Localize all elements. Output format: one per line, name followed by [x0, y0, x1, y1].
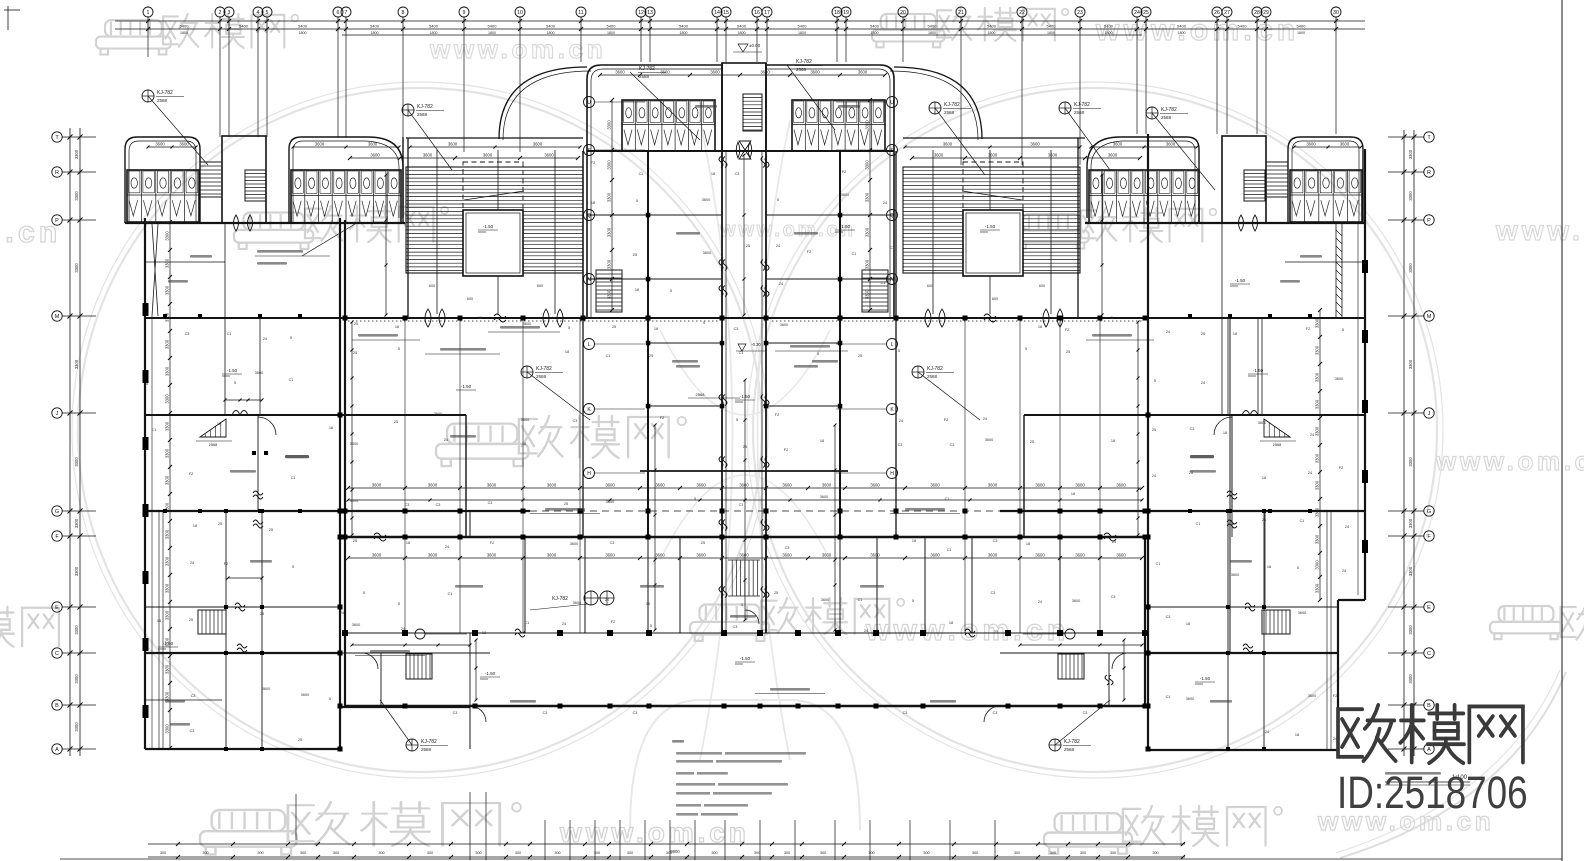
svg-text:3600: 3600	[428, 553, 438, 558]
svg-text:N: N	[890, 277, 894, 283]
svg-text:18: 18	[1233, 332, 1237, 336]
svg-text:-1.50: -1.50	[227, 368, 238, 373]
svg-text:5400: 5400	[1104, 24, 1114, 29]
svg-text:300: 300	[923, 851, 929, 855]
svg-text:18: 18	[635, 288, 639, 292]
svg-text:F2: F2	[807, 250, 811, 254]
svg-text:25: 25	[218, 522, 222, 526]
svg-text:25: 25	[298, 738, 302, 742]
svg-text:3600: 3600	[1072, 599, 1080, 603]
svg-text:3300: 3300	[1408, 674, 1413, 684]
svg-text:C1: C1	[606, 354, 611, 358]
svg-text:5: 5	[817, 352, 819, 356]
svg-text:C1: C1	[1300, 519, 1305, 523]
svg-text:3600: 3600	[782, 483, 792, 488]
svg-text:3600: 3600	[523, 322, 531, 326]
svg-text:C3: C3	[190, 729, 195, 733]
svg-text:C3: C3	[488, 501, 493, 505]
svg-text:300: 300	[868, 851, 874, 855]
svg-text:5400: 5400	[1047, 24, 1057, 29]
svg-text:300: 300	[475, 851, 481, 855]
svg-text:25: 25	[633, 253, 637, 257]
svg-text:5: 5	[568, 326, 570, 330]
svg-text:C: C	[1427, 651, 1431, 657]
svg-text:24: 24	[445, 545, 449, 549]
svg-text:3600: 3600	[301, 693, 309, 697]
svg-text:300: 300	[1152, 851, 1158, 855]
svg-text:3600: 3600	[702, 198, 710, 202]
svg-text:3300: 3300	[1315, 507, 1320, 517]
svg-text:U: U	[587, 100, 591, 106]
svg-text:5: 5	[398, 347, 400, 351]
svg-text:18: 18	[820, 439, 824, 443]
svg-text:C3: C3	[633, 711, 638, 715]
svg-text:25: 25	[354, 322, 358, 326]
svg-text:3300: 3300	[1408, 518, 1413, 528]
svg-text:3300: 3300	[165, 231, 170, 241]
svg-text:5: 5	[703, 321, 705, 325]
svg-text:18: 18	[482, 631, 486, 635]
svg-text:3300: 3300	[1315, 583, 1320, 593]
svg-text:2568: 2568	[1161, 115, 1172, 120]
svg-text:KJ-782: KJ-782	[796, 59, 812, 65]
svg-text:F2: F2	[1065, 328, 1069, 332]
svg-text:600: 600	[537, 284, 543, 288]
svg-text:2568: 2568	[796, 67, 807, 72]
svg-text:C1: C1	[947, 548, 952, 552]
svg-text:3600: 3600	[1306, 142, 1316, 147]
svg-text:3600: 3600	[615, 70, 625, 75]
svg-text:5400: 5400	[180, 24, 190, 29]
svg-text:3300: 3300	[607, 160, 612, 170]
svg-text:C3: C3	[734, 327, 739, 331]
svg-text:25: 25	[994, 630, 998, 634]
svg-text:18: 18	[157, 619, 161, 623]
svg-text:3300: 3300	[1408, 149, 1413, 159]
svg-text:3300: 3300	[1408, 625, 1413, 635]
svg-text:F2: F2	[490, 541, 494, 545]
svg-text:24: 24	[1262, 518, 1266, 522]
svg-text:5: 5	[741, 603, 743, 607]
svg-text:300: 300	[333, 851, 339, 855]
svg-text:C1: C1	[639, 172, 644, 176]
svg-text:3600: 3600	[1116, 553, 1126, 558]
svg-text:C3: C3	[1111, 595, 1116, 599]
svg-text:3600: 3600	[841, 193, 849, 197]
svg-text:300: 300	[1080, 851, 1086, 855]
svg-text:600: 600	[927, 284, 933, 288]
svg-text:3300: 3300	[865, 192, 870, 202]
svg-text:1800: 1800	[547, 31, 555, 35]
svg-text:3300: 3300	[74, 263, 79, 273]
svg-text:C3: C3	[1230, 522, 1235, 526]
svg-text:3300: 3300	[865, 120, 870, 130]
svg-text:18: 18	[1295, 733, 1299, 737]
svg-text:3600: 3600	[696, 483, 706, 488]
svg-text:28: 28	[1254, 10, 1260, 16]
svg-text:18: 18	[217, 422, 221, 426]
svg-text:300: 300	[1110, 851, 1116, 855]
svg-text:3600: 3600	[858, 70, 868, 75]
svg-text:9: 9	[463, 10, 466, 16]
svg-text:5400: 5400	[1238, 24, 1248, 29]
svg-text:3600: 3600	[760, 70, 770, 75]
svg-text:C3: C3	[191, 694, 196, 698]
svg-text:3600: 3600	[1308, 694, 1316, 698]
svg-text:3300: 3300	[1315, 318, 1320, 328]
svg-text:5400: 5400	[679, 24, 689, 29]
svg-text:3600: 3600	[1231, 573, 1239, 577]
svg-text:2568: 2568	[417, 112, 428, 117]
svg-text:18: 18	[912, 539, 916, 543]
svg-text:www.om.cn: www.om.cn	[1495, 215, 1584, 246]
svg-text:C3: C3	[890, 246, 895, 250]
svg-text:5: 5	[234, 381, 236, 385]
svg-text:5: 5	[398, 602, 400, 606]
svg-text:3600: 3600	[547, 483, 557, 488]
svg-text:25: 25	[1030, 440, 1034, 444]
svg-text:C3: C3	[993, 711, 998, 715]
svg-text:3600: 3600	[487, 553, 497, 558]
svg-text:3600: 3600	[696, 553, 706, 558]
svg-text:1800: 1800	[488, 31, 496, 35]
svg-text:5: 5	[1111, 316, 1113, 320]
svg-text:18: 18	[1038, 325, 1042, 329]
svg-text:3300: 3300	[1315, 399, 1320, 409]
svg-text:3600: 3600	[533, 142, 543, 147]
svg-text:24: 24	[605, 598, 609, 602]
svg-text:-1.50: -1.50	[1200, 676, 1211, 681]
svg-text:2: 2	[219, 10, 222, 16]
svg-text:24: 24	[1308, 471, 1312, 475]
svg-text:2568: 2568	[696, 392, 706, 397]
svg-text:3300: 3300	[74, 359, 79, 369]
svg-text:1800: 1800	[928, 31, 936, 35]
svg-text:25: 25	[564, 502, 568, 506]
svg-text:27: 27	[1224, 10, 1230, 16]
svg-text:3600: 3600	[606, 500, 614, 504]
svg-text:KJ-782: KJ-782	[536, 366, 552, 372]
svg-text:3: 3	[228, 10, 231, 16]
svg-text:E: E	[1427, 605, 1431, 611]
svg-text:18: 18	[834, 10, 840, 16]
svg-text:3300: 3300	[74, 566, 79, 576]
svg-text:3300: 3300	[165, 475, 170, 485]
svg-text:25: 25	[858, 354, 862, 358]
svg-text:5: 5	[898, 349, 900, 353]
svg-text:L: L	[588, 342, 591, 348]
svg-text:3600: 3600	[544, 153, 554, 158]
svg-text:3300: 3300	[1315, 345, 1320, 355]
svg-text:3300: 3300	[607, 192, 612, 202]
svg-text:5: 5	[146, 382, 148, 386]
svg-text:24: 24	[340, 611, 344, 615]
svg-text:C1: C1	[291, 476, 296, 480]
svg-text:3600: 3600	[988, 553, 998, 558]
svg-text:KJ-782: KJ-782	[552, 596, 568, 602]
svg-text:3300: 3300	[74, 518, 79, 528]
svg-text:3600: 3600	[1048, 153, 1058, 158]
svg-text:3300: 3300	[165, 394, 170, 404]
svg-text:C1: C1	[152, 428, 157, 432]
svg-text:3300: 3300	[74, 722, 79, 732]
svg-text:3600: 3600	[934, 153, 944, 158]
svg-text:R: R	[55, 170, 59, 176]
svg-text:www.om.cn: www.om.cn	[559, 817, 750, 848]
svg-text:5: 5	[912, 599, 914, 603]
svg-text:C3: C3	[993, 539, 998, 543]
svg-text:3600: 3600	[255, 371, 263, 375]
svg-text:E: E	[55, 605, 59, 611]
svg-text:1: 1	[147, 10, 150, 16]
svg-text:1800: 1800	[871, 31, 879, 35]
svg-text:F2: F2	[1339, 466, 1343, 470]
svg-text:C1: C1	[289, 378, 294, 382]
svg-text:3600: 3600	[660, 70, 670, 75]
svg-text:1800: 1800	[1105, 31, 1113, 35]
svg-text:C3: C3	[898, 443, 903, 447]
svg-text:1800: 1800	[371, 31, 379, 35]
svg-text:F2: F2	[189, 472, 193, 476]
svg-text:600: 600	[467, 297, 473, 301]
svg-text:3300: 3300	[74, 674, 79, 684]
svg-text:24: 24	[983, 417, 987, 421]
svg-text:3600: 3600	[428, 483, 438, 488]
svg-text:3600: 3600	[262, 687, 270, 691]
svg-text:3300: 3300	[1315, 372, 1320, 382]
svg-text:3600: 3600	[870, 553, 880, 558]
svg-text:18: 18	[395, 325, 399, 329]
svg-text:1800: 1800	[798, 31, 806, 35]
svg-text:24: 24	[883, 201, 887, 205]
svg-text:F2: F2	[660, 416, 664, 420]
svg-text:300: 300	[627, 851, 633, 855]
svg-text:3600: 3600	[487, 483, 497, 488]
svg-text:18: 18	[1267, 565, 1271, 569]
svg-text:C3: C3	[733, 625, 738, 629]
svg-text:7: 7	[345, 10, 348, 16]
svg-text:18: 18	[654, 327, 658, 331]
svg-text:C1: C1	[739, 503, 744, 507]
svg-text:3600: 3600	[943, 142, 953, 147]
svg-text:C: C	[55, 651, 59, 657]
svg-text:25: 25	[774, 591, 778, 595]
svg-text:3300: 3300	[74, 457, 79, 467]
svg-text:12: 12	[638, 10, 644, 16]
svg-text:G: G	[55, 509, 59, 515]
svg-text:www.om.cn: www.om.cn	[429, 34, 606, 64]
svg-text:5: 5	[1025, 347, 1027, 351]
svg-text:300: 300	[515, 851, 521, 855]
svg-text:25: 25	[353, 539, 357, 543]
svg-text:C1: C1	[1166, 695, 1171, 699]
svg-text:C1: C1	[739, 351, 744, 355]
svg-text:3300: 3300	[165, 366, 170, 376]
svg-text:ID:2518706: ID:2518706	[1337, 768, 1528, 818]
svg-text:M: M	[1427, 314, 1432, 320]
svg-text:C1: C1	[227, 332, 232, 336]
svg-text:C3: C3	[950, 443, 955, 447]
svg-text:5: 5	[777, 198, 779, 202]
svg-text:3600: 3600	[810, 70, 820, 75]
svg-text:3600: 3600	[1075, 553, 1085, 558]
svg-text:5: 5	[650, 624, 652, 628]
svg-text:25: 25	[1143, 10, 1149, 16]
svg-text:2568: 2568	[536, 374, 547, 379]
svg-text:3600: 3600	[988, 153, 998, 158]
svg-text:18: 18	[1111, 439, 1115, 443]
svg-text:23: 23	[1077, 10, 1083, 16]
svg-text:5400: 5400	[488, 24, 498, 29]
svg-text:300: 300	[784, 851, 790, 855]
svg-text:2568: 2568	[1064, 747, 1075, 752]
svg-text:24: 24	[1201, 381, 1205, 385]
svg-text:2568: 2568	[209, 443, 217, 447]
svg-text:F2: F2	[775, 413, 779, 417]
svg-text:C1: C1	[448, 592, 453, 596]
svg-text:3600: 3600	[1258, 421, 1266, 425]
svg-text:30: 30	[1333, 10, 1339, 16]
svg-text:3300: 3300	[865, 289, 870, 299]
svg-text:F2: F2	[611, 620, 615, 624]
svg-text:300: 300	[378, 851, 384, 855]
svg-text:5: 5	[329, 697, 331, 701]
svg-text:KJ-782: KJ-782	[421, 739, 437, 745]
svg-text:24: 24	[864, 629, 868, 633]
svg-text:F2: F2	[842, 170, 846, 174]
svg-text:1800: 1800	[1297, 31, 1305, 35]
svg-text:C1: C1	[1156, 562, 1161, 566]
svg-text:P: P	[55, 218, 59, 224]
svg-text:5400: 5400	[928, 24, 938, 29]
svg-text:8: 8	[402, 10, 405, 16]
svg-text:3600: 3600	[1108, 153, 1118, 158]
svg-text:1800: 1800	[680, 31, 688, 35]
svg-text:3600: 3600	[605, 553, 615, 558]
svg-text:3600: 3600	[352, 623, 360, 627]
svg-text:3300: 3300	[165, 529, 170, 539]
svg-text:19: 19	[843, 10, 849, 16]
svg-text:25: 25	[1152, 428, 1156, 432]
svg-text:C3: C3	[453, 711, 458, 715]
svg-text:3600: 3600	[930, 483, 940, 488]
svg-text:5400: 5400	[298, 24, 308, 29]
svg-text:N: N	[587, 277, 591, 283]
svg-text:3600: 3600	[1186, 697, 1194, 701]
svg-text:-1.50: -1.50	[1235, 278, 1246, 283]
svg-text:14: 14	[714, 10, 720, 16]
svg-text:600: 600	[992, 297, 998, 301]
svg-text:3600: 3600	[448, 142, 458, 147]
svg-text:3600: 3600	[605, 483, 615, 488]
svg-text:3300: 3300	[165, 448, 170, 458]
svg-text:25: 25	[269, 528, 273, 532]
svg-text:3300: 3300	[1408, 359, 1413, 369]
svg-text:5: 5	[290, 336, 292, 340]
svg-text:24: 24	[444, 438, 448, 442]
svg-text:-1.50: -1.50	[485, 671, 496, 676]
svg-text:2568: 2568	[1074, 110, 1085, 115]
svg-text:-1.50: -1.50	[740, 394, 751, 399]
svg-text:15: 15	[723, 10, 729, 16]
svg-text:300: 300	[711, 851, 717, 855]
svg-text:5400: 5400	[1297, 24, 1307, 29]
svg-text:±0.00: ±0.00	[749, 43, 761, 48]
svg-text:B: B	[55, 703, 59, 709]
svg-text:-1.50: -1.50	[740, 656, 751, 661]
svg-text:5: 5	[1297, 566, 1299, 570]
svg-text:25: 25	[353, 351, 357, 355]
svg-text:24: 24	[1112, 540, 1116, 544]
svg-text:3600: 3600	[372, 483, 382, 488]
svg-text:3600: 3600	[423, 153, 433, 158]
svg-text:3300: 3300	[1408, 457, 1413, 467]
svg-text:3300: 3300	[165, 421, 170, 431]
svg-text:24: 24	[1265, 730, 1269, 734]
svg-text:3600: 3600	[822, 483, 832, 488]
svg-text:24: 24	[1310, 433, 1314, 437]
svg-text:3300: 3300	[607, 227, 612, 237]
svg-text:C1: C1	[852, 252, 857, 256]
svg-text:20: 20	[900, 10, 906, 16]
svg-text:3600: 3600	[739, 553, 749, 558]
svg-text:22: 22	[1019, 10, 1025, 16]
svg-text:P: P	[1427, 218, 1431, 224]
svg-text:3300: 3300	[74, 625, 79, 635]
svg-text:5400: 5400	[429, 24, 439, 29]
svg-text:B: B	[1427, 703, 1431, 709]
svg-text:18: 18	[711, 172, 715, 176]
svg-text:26: 26	[1214, 10, 1220, 16]
svg-text:H: H	[587, 471, 591, 477]
svg-text:KJ-782: KJ-782	[944, 102, 960, 108]
svg-text:C3: C3	[903, 711, 908, 715]
svg-text:3600: 3600	[1166, 142, 1176, 147]
svg-text:3300: 3300	[865, 259, 870, 269]
svg-text:U: U	[890, 100, 894, 106]
svg-text:300: 300	[202, 851, 208, 855]
svg-text:3600: 3600	[655, 483, 665, 488]
svg-text:3600: 3600	[1340, 142, 1350, 147]
svg-text:1800: 1800	[1047, 31, 1055, 35]
svg-text:C3: C3	[610, 541, 615, 545]
svg-text:C3: C3	[436, 503, 441, 507]
svg-text:C3: C3	[185, 332, 190, 336]
svg-text:5400: 5400	[239, 24, 249, 29]
svg-text:600: 600	[429, 284, 435, 288]
svg-text:300: 300	[427, 851, 433, 855]
svg-text:5400: 5400	[370, 24, 380, 29]
svg-text:2568: 2568	[421, 747, 432, 752]
svg-text:KJ-782: KJ-782	[639, 66, 655, 72]
svg-text:-1.50: -1.50	[1253, 368, 1264, 373]
svg-text:3300: 3300	[165, 285, 170, 295]
svg-text:C1: C1	[881, 281, 886, 285]
svg-text:J: J	[1428, 411, 1431, 417]
svg-text:25: 25	[1066, 350, 1070, 354]
svg-text:F2: F2	[1306, 327, 1310, 331]
svg-text:25: 25	[746, 244, 750, 248]
svg-text:C1: C1	[858, 598, 863, 602]
svg-text:1800: 1800	[988, 31, 996, 35]
svg-text:3600: 3600	[985, 438, 993, 442]
svg-text:24: 24	[1038, 600, 1042, 604]
svg-text:24: 24	[1166, 330, 1170, 334]
svg-text:C3: C3	[991, 591, 996, 595]
svg-text:-1.50: -1.50	[461, 384, 472, 389]
svg-text:3300: 3300	[607, 289, 612, 299]
svg-text:18: 18	[1026, 542, 1030, 546]
